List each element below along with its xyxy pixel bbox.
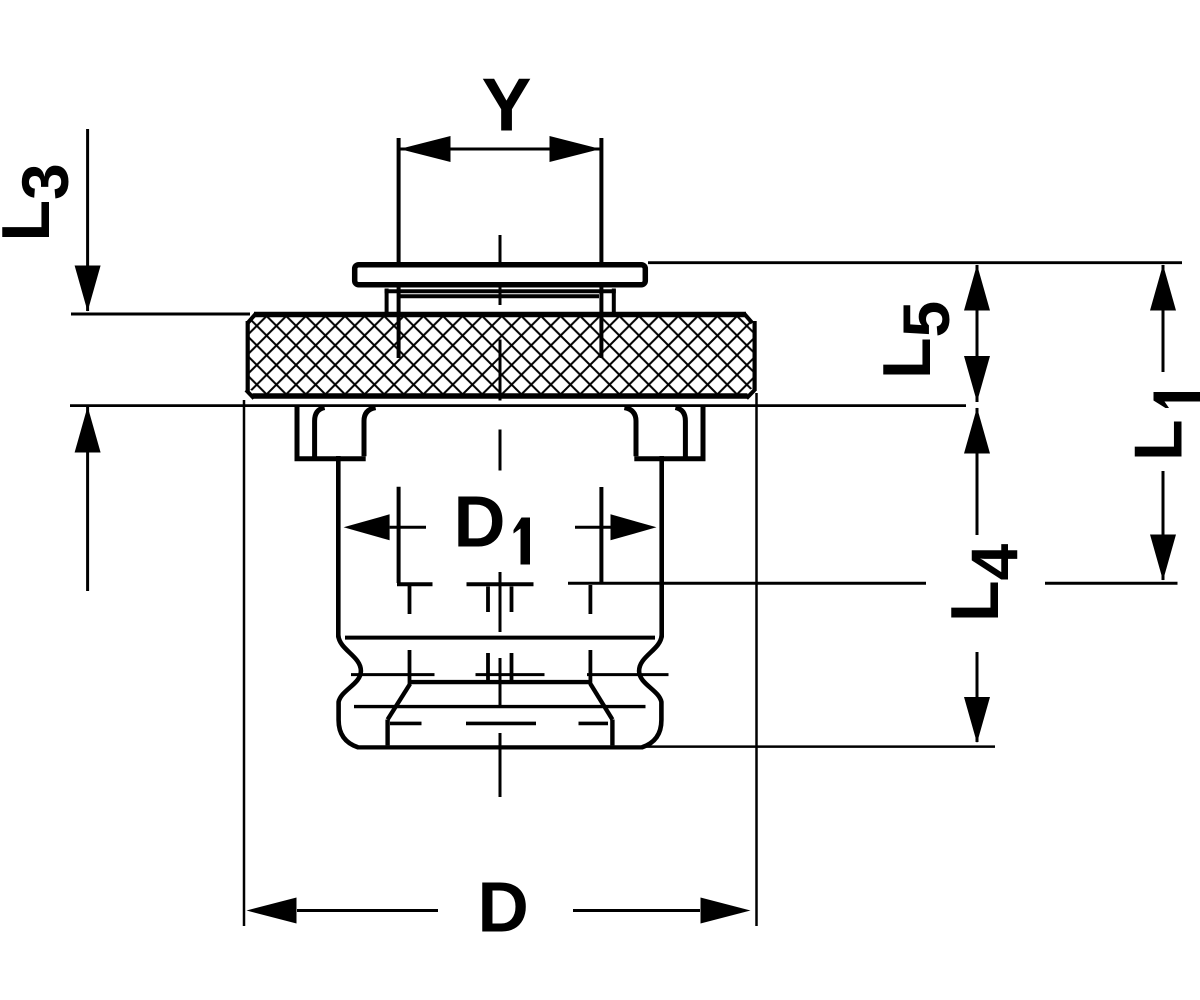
reference line mid (internal bore bottom) <box>568 582 1178 585</box>
label Y <box>481 63 531 147</box>
svg-text:Y: Y <box>481 63 531 147</box>
dimension line D1 <box>344 514 657 540</box>
top reference line (flange top) <box>648 261 1182 264</box>
reference line under flange ring <box>70 404 966 407</box>
label D <box>478 869 529 948</box>
reference line at knurl top, left <box>71 313 250 316</box>
internal bore line right <box>599 487 603 583</box>
dimension line D <box>247 898 751 924</box>
label L4 (rotated) <box>937 543 1031 622</box>
internal cone slant right <box>591 684 613 720</box>
internal cap wall left <box>385 720 389 746</box>
left drive lug <box>297 406 376 459</box>
extension line D left <box>243 400 246 926</box>
groove line segments <box>351 673 669 676</box>
extension line Y left <box>397 138 401 358</box>
bulge line <box>354 705 646 708</box>
dimension line lower-left (unlabelled) <box>75 407 101 592</box>
thread dash segments <box>390 722 608 726</box>
lower profile right <box>639 636 662 748</box>
reference line bottom face extension <box>646 745 995 748</box>
body left edge <box>336 456 341 638</box>
internal tick marks <box>410 555 591 685</box>
dimension line L4 <box>964 408 990 744</box>
dimension line L3 <box>75 129 101 312</box>
right drive lug <box>624 406 703 459</box>
neck below flange <box>385 289 616 314</box>
svg-text:D: D <box>478 869 529 948</box>
waist line <box>345 636 655 640</box>
knurled ring <box>246 314 755 399</box>
label L3 (rotated) <box>0 163 82 241</box>
extension line D right <box>755 393 758 926</box>
extension line Y right <box>599 138 603 358</box>
body right edge <box>659 456 664 638</box>
top flange plate <box>355 265 646 285</box>
label L5 (rotated) <box>869 301 963 379</box>
svg-text:L: L <box>1121 419 1197 461</box>
internal cone top line <box>410 680 591 684</box>
bottom face <box>357 745 643 749</box>
label D1 <box>454 483 531 565</box>
dimension line L5 <box>964 265 990 403</box>
internal cone slant left <box>388 684 410 720</box>
internal bore line left <box>397 487 401 583</box>
dimension line Y <box>400 136 601 162</box>
centre line (vertical axis) <box>499 235 502 797</box>
dimension line L1 <box>1150 265 1176 581</box>
lower profile left <box>338 636 361 748</box>
svg-text:D: D <box>454 483 506 563</box>
internal bore feet <box>397 582 534 586</box>
internal cap wall right <box>610 720 614 746</box>
label L1 (rotated) <box>1121 392 1200 461</box>
